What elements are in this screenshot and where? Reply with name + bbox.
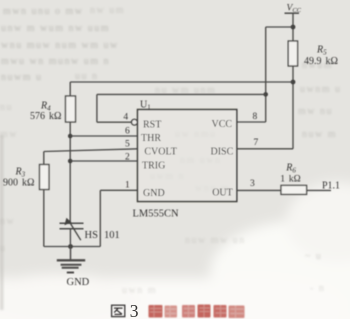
svg-text:1 kΩ: 1 kΩ <box>280 175 300 185</box>
svg-text:DISC: DISC <box>211 146 234 157</box>
svg-text:uwn m: uwn m <box>122 285 157 296</box>
svg-text:unw m wum nw uum: unw m wum nw uum <box>1 23 110 34</box>
svg-text:OUT: OUT <box>212 187 233 198</box>
wire GND pin1 horizontal <box>100 189 137 191</box>
svg-text:HS: HS <box>85 230 99 241</box>
wire R5 bottom down to DISC row <box>292 66 294 149</box>
svg-text:6: 6 <box>125 126 130 136</box>
svg-text:THR: THR <box>141 133 161 144</box>
svg-text:nu: nu <box>0 102 13 113</box>
wire HS1101 bottom lead <box>69 229 71 247</box>
wire CVOLT horizontal <box>44 149 138 152</box>
svg-text:GND: GND <box>143 188 165 199</box>
svg-text:576 kΩ: 576 kΩ <box>30 111 61 122</box>
ground <box>57 247 85 273</box>
svg-text:mwu wn munw um n: mwu wn munw um n <box>1 56 110 67</box>
RST inversion bubble <box>132 119 138 125</box>
svg-text:wnu muw num wm uw: wnu muw num wm uw <box>1 40 119 51</box>
resistor R3 body <box>40 165 50 190</box>
svg-text:LM555CN: LM555CN <box>133 209 180 220</box>
node VCC supply symbol <box>285 3 302 14</box>
svg-text:7: 7 <box>254 138 259 148</box>
node junction dot TRIG (70.2,161) <box>68 159 73 164</box>
svg-text:uu n: uu n <box>75 71 99 82</box>
capacitor HS1101 bottom plate <box>60 228 84 230</box>
resistor R6 body <box>281 185 307 194</box>
wire CVOLT down to R3 <box>43 152 45 165</box>
node junction dot at (293,82) <box>291 80 296 85</box>
svg-text:CVOLT: CVOLT <box>144 146 176 157</box>
wire R6 to P1.1 <box>307 189 331 191</box>
svg-text:4: 4 <box>123 113 128 123</box>
svg-text:~ u: ~ u <box>305 251 322 262</box>
node junction dot at (265.7,94.4) <box>263 92 268 97</box>
caption 图3 glyph <box>112 305 125 316</box>
resistor R4 body <box>66 96 76 122</box>
wire VCC down to node <box>292 13 294 41</box>
svg-text:GND: GND <box>67 277 90 288</box>
svg-text:TRIG: TRIG <box>142 160 165 171</box>
wire branch left from VCC node <box>266 26 293 28</box>
svg-text:101: 101 <box>104 230 120 241</box>
wire ground bus horizontal <box>44 246 101 248</box>
svg-text:3: 3 <box>250 179 255 189</box>
wire R4 bottom down to HS1101 <box>69 122 71 223</box>
svg-text:RST: RST <box>143 119 161 130</box>
svg-text:2: 2 <box>125 153 130 163</box>
wire R3 bottom down <box>43 190 45 247</box>
svg-text:mwn unu o mw: mwn unu o mw <box>3 6 84 17</box>
wire RST loop vertical <box>96 94 98 122</box>
svg-text:49.9 kΩ: 49.9 kΩ <box>304 56 338 67</box>
svg-text:P1.1: P1.1 <box>322 181 340 192</box>
svg-text:nuw m: nuw m <box>302 129 337 140</box>
node junction dot at (293,27) <box>291 25 296 30</box>
wire down to R4 <box>69 82 71 96</box>
svg-text:8: 8 <box>253 112 258 122</box>
svg-text:nuwm u: nuwm u <box>1 72 43 83</box>
wire OUT horizontal <box>237 189 281 191</box>
svg-text:900 kΩ: 900 kΩ <box>3 178 34 189</box>
svg-text:1: 1 <box>125 181 130 191</box>
wire branch down to pin 8 <box>265 27 267 122</box>
svg-text:3: 3 <box>130 301 139 319</box>
left page-edge streak <box>0 135 4 310</box>
wire RST loop horizontal <box>97 93 266 95</box>
wire pin8 horizontal <box>237 121 266 123</box>
wire long horizontal to R4 top <box>70 81 293 83</box>
wire into RST bubble <box>97 121 132 123</box>
svg-text:nuw mw un: nuw mw un <box>185 235 246 246</box>
wire TRIG <box>70 160 137 162</box>
wire DISC horizontal <box>237 148 293 150</box>
svg-text:uwnm u: uwnm u <box>300 84 342 95</box>
svg-text:nw um: nw um <box>90 5 125 16</box>
node junction dot ground (70.5,246.5) <box>68 244 73 249</box>
wire GND pin1 vertical <box>99 190 101 246</box>
node junction dot THR (70.2,136) <box>68 134 73 139</box>
caption red text (blurred) <box>149 305 245 319</box>
HS1101 variable arrow <box>64 218 80 241</box>
capacitor HS1101 top plate <box>60 222 84 224</box>
resistor R5 body <box>288 41 297 66</box>
svg-text:- n: - n <box>310 283 325 294</box>
svg-text:mw nu: mw nu <box>298 106 333 117</box>
op-amp U1 IC box LM555 <box>138 110 237 202</box>
svg-text:VCC: VCC <box>212 119 233 130</box>
svg-text:5: 5 <box>125 139 130 149</box>
wire THR <box>70 135 137 137</box>
